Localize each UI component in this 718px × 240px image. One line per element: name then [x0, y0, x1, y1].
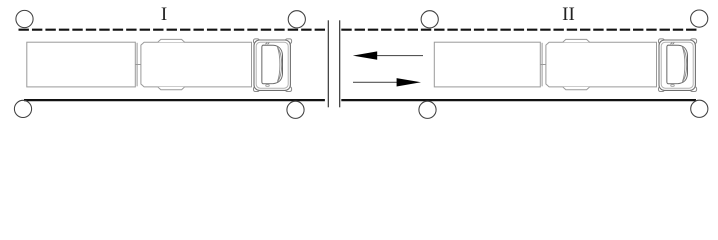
top dashed lane line, left segment (region I) [19, 29, 326, 31]
divider: left vertical line [327, 20, 329, 107]
roller circle bottom mid-left [287, 101, 304, 118]
roller circle bottom mid-right [419, 101, 436, 118]
roller circle top far-left [16, 10, 33, 27]
trailer box of truck I [27, 42, 136, 87]
bottom solid road line, right segment [341, 99, 696, 101]
roller circle top far-right [691, 10, 708, 27]
tractor and cab of truck II [540, 39, 696, 92]
tractor and cab of truck I [135, 39, 291, 92]
roller circle top mid-left [288, 11, 305, 28]
bottom solid road line, left segment [24, 99, 325, 101]
divider: right vertical line [339, 20, 341, 107]
arrow left (upper, region II) [353, 51, 423, 59]
trailer box of truck II [434, 42, 540, 87]
svg-text:II: II [562, 4, 575, 25]
svg-text:I: I [161, 4, 167, 25]
arrow right (lower, region II) [353, 78, 421, 86]
roller circle bottom far-right [691, 100, 708, 117]
roller circle bottom far-left [14, 100, 31, 117]
top dashed lane line, right segment (region II) [341, 29, 696, 31]
roller circle top mid-right [421, 11, 438, 28]
